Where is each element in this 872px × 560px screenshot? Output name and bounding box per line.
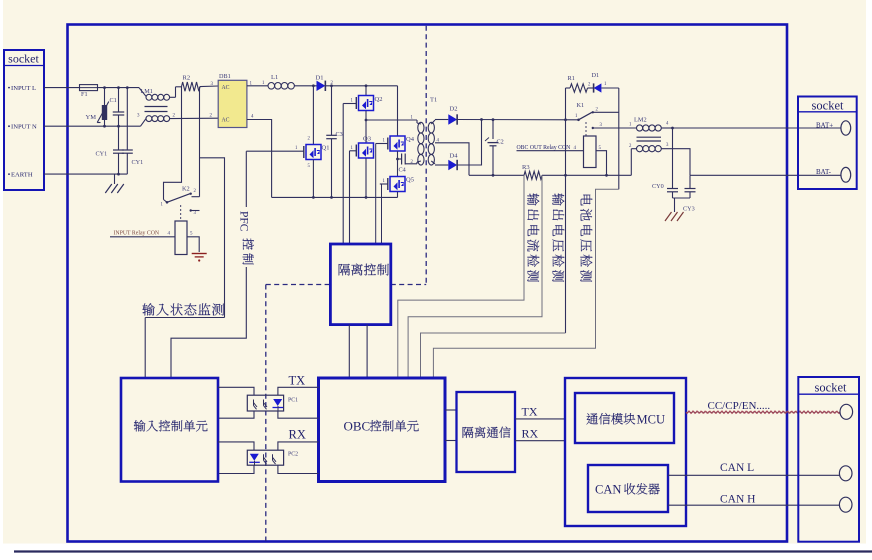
svg-text:socket: socket <box>812 99 844 113</box>
svg-text:Q1: Q1 <box>322 145 330 152</box>
riser from L-node to K2 (via R2 left) <box>164 87 182 200</box>
wire N to bridge pin 2 <box>170 117 219 119</box>
svg-text:K2: K2 <box>182 186 190 193</box>
communication module outer box <box>565 378 686 526</box>
PC2 wires <box>218 442 254 450</box>
relay K2 mechanical link <box>180 205 182 221</box>
D4 cathode riser to positive rail <box>457 120 481 166</box>
wire INPUT N from socket <box>44 125 141 127</box>
relay K1 mechanical link <box>585 122 587 136</box>
PFC mosfet Q1 <box>312 86 314 145</box>
svg-text:D2: D2 <box>450 106 458 113</box>
node L-YM <box>103 86 106 89</box>
svg-text:R3: R3 <box>522 164 530 171</box>
label 输出电压检测 (rotated column) <box>552 193 564 281</box>
capacitor CY1 (N to earth) <box>118 126 120 150</box>
wire CAN H <box>668 504 840 506</box>
svg-text:C4: C4 <box>399 167 406 174</box>
svg-text:F1: F1 <box>81 91 88 98</box>
mosfet Q3 <box>359 143 374 158</box>
block OBC控制单元 (OBC control unit) <box>319 378 446 482</box>
block 通信模块MCU <box>575 393 674 443</box>
svg-text:CY3: CY3 <box>683 206 695 213</box>
label 输入状态监测 <box>142 303 224 315</box>
fuse F1 <box>80 85 98 91</box>
svg-text:CC/CP/EN.....: CC/CP/EN..... <box>708 400 771 412</box>
wire RX comm <box>515 440 565 442</box>
node N-YM <box>103 125 106 128</box>
wire label to input control unit <box>144 318 146 379</box>
svg-text:C3: C3 <box>336 131 343 138</box>
K1 right node riser (battery sense source) <box>618 88 620 189</box>
svg-text:MCU: MCU <box>637 413 665 427</box>
terminal CAN L <box>839 466 852 481</box>
capacitor C1 (X-cap L-N) <box>118 88 120 112</box>
isolation boundary dashed corner <box>266 284 331 286</box>
svg-text:CAN H: CAN H <box>720 493 755 505</box>
CC/CP/EN squiggle wire <box>686 411 840 414</box>
svg-text:LM2: LM2 <box>634 117 647 124</box>
isolation boundary dash to control box <box>391 284 426 286</box>
block 隔离控制 (isolation control) <box>330 244 390 325</box>
wire K1 pin3 to LM2 <box>594 127 637 129</box>
label 输出电流检测 (rotated column) <box>527 193 539 281</box>
node L-C1 <box>117 86 120 89</box>
svg-text:K1: K1 <box>577 102 585 109</box>
node N-C1 <box>117 125 120 128</box>
node L-CY2 <box>126 86 129 89</box>
gate wire Q4 <box>376 143 388 145</box>
wire L line: fuse to LM1 <box>98 87 140 89</box>
block CAN 收发器 (CAN transceiver) <box>588 465 668 512</box>
svg-text:INPUT Relay CON: INPUT Relay CON <box>114 231 160 237</box>
wires isolation control to OBC unit <box>348 325 350 378</box>
svg-text:socket: socket <box>815 381 847 395</box>
wire R2 to bridge pin 3 <box>200 85 218 88</box>
output negative rail (left part) <box>469 174 524 176</box>
mosfet Q4 <box>397 86 399 136</box>
wire L1 to D1 anode, node to Q1 drain <box>294 85 316 87</box>
label 电池电压检测 (rotated column) <box>580 195 592 282</box>
branch to input status monitor <box>200 158 225 318</box>
BAT+ output wire <box>673 127 842 129</box>
wire CAN L <box>668 474 840 476</box>
wires OBC to isolation comm <box>445 409 457 411</box>
node earth-CY1 <box>117 173 120 176</box>
svg-text:PC1: PC1 <box>288 398 298 404</box>
wire EARTH from socket <box>44 173 127 175</box>
svg-text:R1: R1 <box>568 75 575 82</box>
svg-text:L1: L1 <box>271 74 278 81</box>
svg-text:RX: RX <box>289 428 306 442</box>
schematic sheet frame <box>68 25 788 542</box>
PC1 wires <box>218 387 254 395</box>
ground symbol (earth) <box>114 174 116 184</box>
svg-text:OBC: OBC <box>344 419 371 434</box>
riser from R2 right down to K2 pin2 <box>199 87 201 197</box>
svg-text:AC: AC <box>222 118 230 124</box>
svg-text:CAN L: CAN L <box>720 462 754 474</box>
half-bridge mosfet Q2 <box>365 86 367 96</box>
wire bridge pin4 negative return <box>247 120 272 198</box>
capacitor CY3 <box>689 175 691 188</box>
block 隔离通信 (isolated communication) <box>457 392 516 472</box>
CY caps common to ground <box>672 192 674 198</box>
gate wire Q2 <box>343 103 356 105</box>
riser to LM2 pin2 <box>630 149 632 176</box>
svg-text:T1: T1 <box>430 97 437 104</box>
svg-text:Q2: Q2 <box>375 96 383 103</box>
svg-text:EARTH: EARTH <box>11 171 33 178</box>
top DC rail after D1 <box>325 85 397 87</box>
varistor YM <box>104 88 106 105</box>
PFC control wire from input control unit to Q1 gate <box>171 151 246 378</box>
svg-text:R2: R2 <box>183 75 191 82</box>
connector socket box (battery output) <box>798 97 857 190</box>
negative rail R3 to LM2 riser <box>542 174 631 176</box>
relay K1 coil <box>584 136 597 168</box>
svg-text:D1: D1 <box>592 72 600 79</box>
svg-text:OBC OUT Relay CON: OBC OUT Relay CON <box>517 145 572 151</box>
wire TX comm <box>515 418 565 420</box>
resonant capacitor C4 <box>396 158 399 161</box>
svg-text:BAT-: BAT- <box>816 168 832 176</box>
gate wire Q5 <box>380 183 388 185</box>
label PFC控制 (rotated) <box>235 207 250 267</box>
R1 left riser (also output voltage sense column) <box>565 88 567 333</box>
block 输入控制单元 (input control unit) <box>121 378 218 482</box>
mosfet Q5 <box>390 177 405 192</box>
sense wire: output voltage to OBC <box>421 333 566 378</box>
wire CON to K1 coil pin4 <box>517 150 584 152</box>
ground symbol (output) <box>665 212 672 221</box>
gate drive wires from isolation control <box>342 104 344 245</box>
sense wire: shunt right to OBC <box>408 175 542 378</box>
sense wire: battery voltage to OBC <box>433 189 618 378</box>
capacitor CY2 (L to earth) <box>126 88 128 150</box>
svg-text:Q3: Q3 <box>363 136 371 143</box>
svg-text:CY0: CY0 <box>652 183 664 190</box>
bottom page border line <box>14 550 872 552</box>
gate wire Q1 (PFC drive) <box>246 150 303 152</box>
wire LM2 pin3 to BAT- rail <box>661 149 690 176</box>
optocoupler PC2 <box>247 450 283 465</box>
output capacitor C2 <box>492 120 494 139</box>
svg-text:D1: D1 <box>316 74 324 81</box>
wire Q2/Q3 node to T1 primary pin1 <box>366 119 417 121</box>
wire bridge pin1 to inductor L1 <box>247 85 268 87</box>
svg-text:PFC: PFC <box>238 211 250 232</box>
svg-text:BAT+: BAT+ <box>816 121 833 129</box>
terminal CAN H <box>839 497 852 512</box>
ground symbol (K2 coil, red) <box>192 253 207 255</box>
svg-text:CY1: CY1 <box>132 159 144 166</box>
node half-bridge mid to transformer <box>365 119 368 122</box>
connector socket box (signal) <box>798 377 859 542</box>
relay K2 coil <box>175 221 187 255</box>
svg-text:INPUT L: INPUT L <box>11 85 36 92</box>
wire CON to K2 coil pin4 <box>110 236 175 238</box>
K2 pin3 stub <box>190 209 192 211</box>
wire under input status label <box>145 317 224 319</box>
svg-text:socket: socket <box>8 52 39 66</box>
svg-text:Q4: Q4 <box>406 136 415 143</box>
isolation boundary dashed line (upper) <box>425 26 427 285</box>
optocoupler PC1 <box>247 395 283 411</box>
svg-text:DB1: DB1 <box>219 73 231 80</box>
sense wire: shunt left to OBC <box>398 175 524 378</box>
svg-text:CAN: CAN <box>595 483 621 497</box>
BAT- output wire <box>690 174 841 176</box>
svg-text:C1: C1 <box>110 97 117 104</box>
T1 secondary top wire to D2 <box>435 119 448 121</box>
bridge rectifier DB1 <box>218 80 247 127</box>
primary-side source bus <box>272 196 398 198</box>
capacitor CY0 <box>672 128 674 189</box>
svg-text:AC: AC <box>222 85 230 91</box>
svg-text:INPUT N: INPUT N <box>11 124 37 131</box>
T1 secondary bottom wire to D4 <box>435 164 448 166</box>
svg-text:Q5: Q5 <box>406 177 414 184</box>
T1 center tap to negative rail <box>435 143 469 176</box>
svg-text:RX: RX <box>522 427 539 441</box>
svg-text:TX: TX <box>289 374 306 388</box>
connector J1 socket box (AC input) <box>4 50 44 190</box>
svg-text:TX: TX <box>522 405 538 419</box>
terminal CC/CP/EN <box>840 404 853 419</box>
bulk capacitor C3 <box>331 86 333 136</box>
output positive rail <box>457 119 578 121</box>
svg-text:D4: D4 <box>450 153 459 160</box>
svg-text:CY1: CY1 <box>96 151 108 158</box>
wire INPUT L from socket to fuse <box>44 87 80 89</box>
svg-text:YM: YM <box>86 114 97 121</box>
svg-text:PC2: PC2 <box>288 452 298 458</box>
svg-text:C2: C2 <box>497 139 504 146</box>
gate wire Q3 <box>350 150 357 152</box>
